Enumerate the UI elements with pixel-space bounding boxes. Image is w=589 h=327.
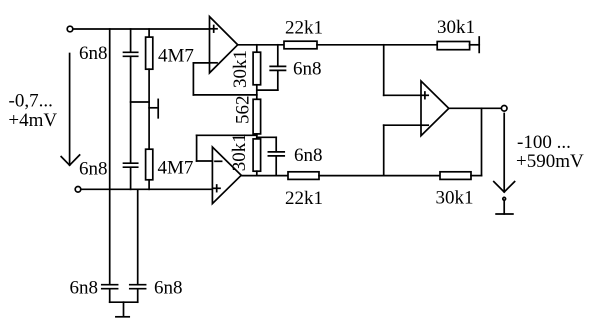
capacitor C5 6n8 plates	[270, 65, 285, 67]
capacitor C3 6n8 plates	[102, 284, 118, 286]
wire R5 to R6 node	[256, 134, 258, 139]
svg-text:30k1: 30k1	[229, 133, 250, 171]
wire C2 bottom lead	[130, 168, 132, 190]
resistor R1 4M7 body	[146, 37, 153, 69]
svg-text:4M7: 4M7	[158, 158, 194, 179]
svg-text:30k1: 30k1	[230, 50, 251, 88]
ground right	[496, 213, 513, 215]
wire U1 feedback	[193, 62, 209, 64]
op-amp U3 minus sign	[422, 124, 429, 126]
resistor R3 30k1 body	[253, 52, 261, 85]
arrow output voltage range	[503, 114, 505, 192]
wire U1 output rail	[238, 44, 284, 46]
wire U2 feedback	[197, 160, 213, 162]
capacitor C6 6n8 plates	[268, 151, 284, 153]
wire R6 bottom lead	[256, 171, 258, 175]
wire R1 to R2	[148, 69, 150, 149]
svg-text:6n8: 6n8	[154, 278, 183, 299]
svg-text:6n8: 6n8	[294, 145, 323, 166]
wire C6 bottom lead	[275, 156, 277, 175]
capacitor C4 6n8 plates	[130, 284, 146, 286]
op-amp U2 plus sign	[213, 187, 220, 189]
op-amp U1 minus sign	[210, 62, 217, 64]
wire C4 bottom lead	[137, 289, 139, 302]
resistor R4 22k1 body	[284, 41, 317, 49]
svg-text:6n8: 6n8	[293, 59, 322, 80]
resistor R2 4M7 body	[146, 149, 153, 180]
svg-text:+4mV: +4mV	[8, 110, 57, 131]
wire second bottom vertical	[137, 189, 139, 284]
op-amp U2 minus sign	[215, 160, 222, 162]
svg-text:30k1: 30k1	[437, 17, 475, 38]
resistor R5 562 body	[253, 99, 261, 134]
wire joining C3 C4	[110, 301, 138, 303]
wire long left vertical	[109, 29, 111, 284]
wire R9 to output junction	[471, 175, 482, 177]
op-amp U3 plus sign	[422, 94, 429, 96]
capacitor C6 6n8 top lead	[275, 137, 277, 151]
resistor R9 30k1 body	[440, 172, 471, 180]
wire node to U2 feedback	[197, 134, 257, 136]
svg-text:22k1: 22k1	[285, 18, 323, 39]
wire top input to op-amp U1 +	[73, 28, 210, 30]
wire R8 right lead	[470, 44, 480, 46]
ground stub right	[503, 201, 505, 214]
svg-text:-0,7...: -0,7...	[9, 91, 53, 112]
wire R2 bottom lead	[148, 180, 150, 190]
op-amp U2	[212, 147, 241, 204]
resistor R3 30k1 top lead	[256, 45, 258, 52]
op-amp U1	[210, 17, 238, 73]
wire U3 output	[449, 107, 502, 109]
output terminal	[501, 106, 507, 112]
svg-text:-100 ...: -100 ...	[517, 132, 571, 153]
termination bar	[478, 37, 480, 52]
wire node to C6	[257, 136, 276, 138]
svg-text:6n8: 6n8	[79, 43, 108, 64]
wire output junction down	[481, 108, 483, 175]
op-amp U3	[421, 81, 449, 136]
reference point circle	[503, 197, 506, 200]
wire C1 to C2	[130, 57, 132, 163]
capacitor C5 6n8 top lead	[277, 45, 279, 66]
capacitor C1 6n8 top lead	[130, 29, 132, 52]
capacitor C2 6n8 plates	[124, 162, 138, 164]
wire C5 to node	[257, 89, 278, 91]
resistor R7 22k1 body	[288, 172, 319, 180]
wire bottom input to op-amp U2 +	[81, 188, 212, 190]
arrow input voltage range	[69, 54, 71, 165]
wire C3 bottom lead	[109, 289, 111, 302]
svg-text:30k1: 30k1	[436, 188, 474, 209]
wire U2 output rail	[241, 175, 288, 177]
wire top rail to right	[317, 44, 437, 46]
resistor R8 30k1 body	[437, 42, 469, 50]
ground stub	[123, 302, 125, 316]
wire R3 to R5 node	[256, 85, 258, 100]
probe stub	[149, 107, 157, 109]
input terminal top	[67, 26, 73, 32]
svg-text:6n8: 6n8	[79, 158, 108, 179]
op-amp U1 plus sign	[210, 28, 217, 30]
wire link C column to R column	[131, 101, 150, 103]
probe bar	[157, 99, 159, 117]
wire C5 bottom lead	[277, 71, 279, 90]
svg-text:6n8: 6n8	[70, 278, 99, 299]
ground	[116, 316, 129, 318]
svg-text:+590mV: +590mV	[516, 151, 584, 172]
wire U3 minus feedback	[384, 124, 421, 126]
svg-text:22k1: 22k1	[285, 188, 323, 209]
capacitor C1 6n8 plates	[124, 51, 138, 53]
svg-text:4M7: 4M7	[158, 46, 194, 67]
svg-text:562: 562	[232, 96, 253, 124]
resistor R6 30k1 body	[253, 139, 261, 171]
input terminal bottom	[75, 187, 81, 193]
wire bottom rail to right	[319, 175, 440, 177]
resistor R1 4M7 top lead	[148, 29, 150, 37]
wire top junction down to U3 +	[383, 45, 385, 96]
